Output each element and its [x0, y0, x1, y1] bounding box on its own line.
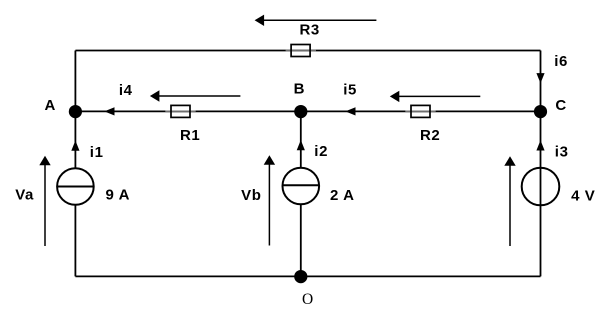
svg-text:R1: R1 [180, 127, 200, 144]
svg-text:O: O [302, 291, 313, 308]
svg-text:i6: i6 [554, 53, 568, 70]
svg-text:i2: i2 [314, 143, 328, 160]
svg-text:Vb: Vb [241, 187, 261, 204]
svg-text:i3: i3 [555, 143, 569, 160]
svg-text:i1: i1 [90, 144, 104, 161]
svg-text:9 A: 9 A [106, 187, 131, 204]
svg-text:R2: R2 [420, 127, 440, 144]
svg-text:i4: i4 [119, 82, 133, 99]
svg-text:C: C [555, 97, 566, 114]
svg-text:R3: R3 [300, 22, 320, 39]
svg-text:Va: Va [15, 187, 34, 204]
svg-text:2 A: 2 A [330, 187, 355, 204]
svg-text:A: A [45, 97, 56, 114]
svg-text:i5: i5 [343, 82, 357, 99]
svg-text:B: B [294, 81, 305, 98]
svg-text:4 V: 4 V [571, 187, 595, 204]
